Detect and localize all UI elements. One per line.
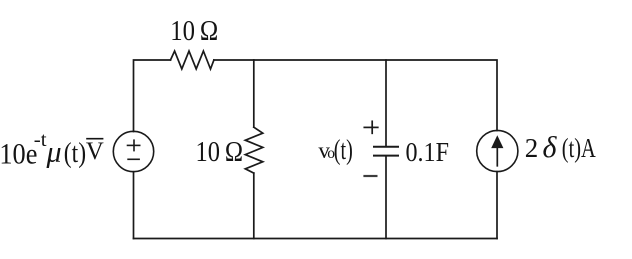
wire left vertical lower bbox=[133, 172, 135, 239]
resistor 10ohm top zigzag bbox=[171, 51, 214, 69]
current source arrowhead bbox=[491, 135, 503, 148]
svg-text:(t): (t) bbox=[334, 135, 353, 166]
svg-text:V: V bbox=[86, 138, 104, 165]
wire middle branch upper bbox=[253, 60, 255, 127]
svg-text:10e: 10e bbox=[0, 138, 37, 171]
svg-text:-t: -t bbox=[34, 129, 47, 151]
svg-text:(t): (t) bbox=[64, 138, 86, 169]
wire top-left segment bbox=[134, 60, 171, 132]
capacitor minus polarity mark bbox=[365, 175, 377, 177]
capacitor 0.1F bottom plate bbox=[374, 155, 398, 157]
capacitor plus polarity mark bbox=[364, 121, 378, 133]
svg-text:10 Ω: 10 Ω bbox=[170, 16, 218, 47]
svg-text:10 Ω: 10 Ω bbox=[196, 137, 244, 168]
voltage source plus sign bbox=[128, 140, 140, 150]
current source I1 circle bbox=[477, 130, 518, 171]
capacitor 0.1F top plate bbox=[374, 146, 398, 148]
voltage source V1 circle bbox=[113, 131, 153, 171]
svg-text:2: 2 bbox=[525, 133, 539, 163]
wire capacitor branch upper bbox=[385, 60, 387, 146]
svg-text:0.1F: 0.1F bbox=[406, 137, 450, 167]
wire middle branch lower bbox=[253, 173, 255, 238]
wire top-right segment bbox=[214, 60, 497, 131]
wire capacitor branch lower bbox=[385, 156, 387, 238]
label voltage source value 10e^-t mu(t)V bbox=[0, 129, 104, 171]
label capacitor node voltage vo(t) bbox=[318, 135, 352, 166]
resistor 10ohm middle zigzag bbox=[245, 127, 262, 173]
label current source value 2 delta(t)A bbox=[525, 131, 596, 164]
wire right vertical lower bbox=[496, 172, 498, 239]
svg-text:(t)A: (t)A bbox=[562, 133, 596, 163]
current source arrow tail bbox=[496, 147, 498, 166]
voltage source minus sign bbox=[128, 158, 139, 160]
svg-text:δ: δ bbox=[543, 131, 558, 164]
overline bar above V in source label bbox=[87, 138, 103, 140]
svg-text:μ: μ bbox=[46, 136, 62, 169]
wire bottom horizontal bbox=[134, 238, 498, 240]
